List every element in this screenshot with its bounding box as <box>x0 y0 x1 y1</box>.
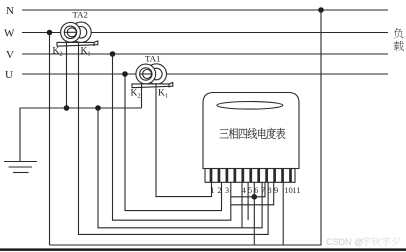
phase line W <box>22 32 388 34</box>
svg-text:N: N <box>6 5 14 17</box>
wire terminal 4 drop <box>241 182 243 228</box>
svg-text:7: 7 <box>261 185 265 195</box>
wire bottom rail with N drop <box>50 10 322 245</box>
wire TA1 K2 down to bus end <box>141 83 143 108</box>
current transformer TA1 <box>132 53 173 87</box>
label 负载 (load) <box>394 28 404 51</box>
svg-text:TA1: TA1 <box>145 53 160 63</box>
meter window <box>217 102 283 110</box>
wire link line to terminal 9 <box>231 182 274 205</box>
svg-text:K1: K1 <box>81 47 91 58</box>
svg-text:TA2: TA2 <box>73 9 88 19</box>
phase line N <box>22 9 388 11</box>
wire terminal 6 drop through dot to rail <box>253 182 255 245</box>
meter body <box>203 93 299 169</box>
meter terminal strip <box>205 169 295 183</box>
svg-text:K2: K2 <box>131 89 141 100</box>
svg-text:11: 11 <box>292 185 300 195</box>
svg-text:3: 3 <box>225 185 229 195</box>
node N tap dot <box>318 7 324 13</box>
ground <box>4 162 37 173</box>
node bus drop dot <box>95 105 101 111</box>
wire TA2 K2 to bus <box>66 42 68 109</box>
svg-text:9: 9 <box>274 185 278 195</box>
phase line V <box>22 53 388 55</box>
svg-text:V: V <box>6 49 14 61</box>
wire terminal 5 drop <box>247 182 249 220</box>
svg-text:4: 4 <box>242 185 247 195</box>
svg-text:5: 5 <box>248 185 252 195</box>
svg-text:6: 6 <box>254 185 258 195</box>
svg-text:CSDN @: CSDN @ <box>326 237 363 247</box>
wire terminal 10 drop <box>282 182 284 245</box>
wire U tap down then right to terminal 2 riser <box>125 74 222 211</box>
wire V tap down then right to terminal 3 riser <box>113 54 231 220</box>
node U tap dot <box>122 71 128 77</box>
svg-text:K2: K2 <box>53 47 63 58</box>
wire TA2 K1 down then right to terminal 8 riser <box>79 42 269 235</box>
node V tap dot <box>110 51 116 57</box>
current transformer TA2 <box>57 9 98 46</box>
svg-text:W: W <box>4 28 15 40</box>
terminal number labels <box>210 185 300 195</box>
svg-text:U: U <box>5 69 13 81</box>
node junction dot on K1 line <box>252 194 258 200</box>
phase line U <box>22 73 388 75</box>
wire W tap down to rail <box>49 33 51 246</box>
svg-text:1: 1 <box>210 185 214 195</box>
svg-text:2: 2 <box>217 185 221 195</box>
wire link line terminal 4 to terminal 7 with junction <box>231 182 265 197</box>
bottom band <box>0 248 406 251</box>
svg-text:K1: K1 <box>158 89 168 100</box>
node W tap dot <box>47 30 53 36</box>
node TA2 K2 bus dot <box>64 105 70 111</box>
wire bus drop down then right to terminal 7 riser <box>98 108 262 228</box>
svg-text:8: 8 <box>267 185 271 195</box>
meter label 三相四线电度表 <box>219 128 285 139</box>
wire bus <box>20 108 142 162</box>
wire TA1 K1 down then right to terminal 1 riser <box>156 83 212 197</box>
